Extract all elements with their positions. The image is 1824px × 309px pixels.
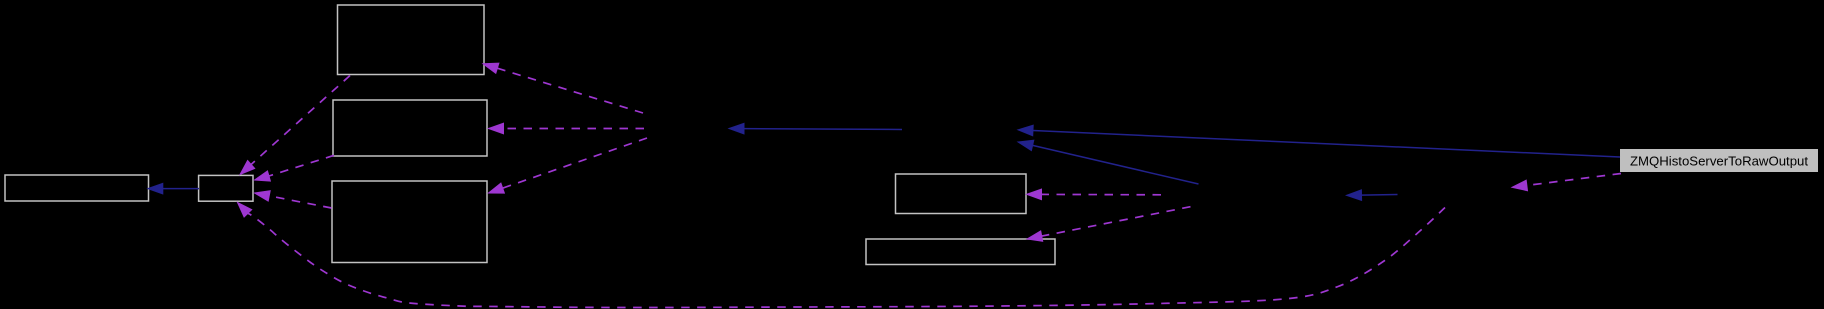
usage edge ZMQHistoServerToRawOutput to X (dashed purple): [1512, 174, 1621, 191]
node D (small box): [199, 175, 253, 201]
inheritance edge Z to W (solid blue, middle): [729, 123, 902, 134]
node ZMQHistoServerToRawOutput (current class, grey filled): [1620, 149, 1818, 172]
usage edge W to C (dashed purple): [489, 138, 648, 193]
node E (left wide box): [5, 175, 149, 201]
usage edge Y to F (dashed purple, partial: label gap): [1027, 189, 1162, 200]
node G: [866, 239, 1055, 265]
inheritance edge X to Y (short solid blue): [1347, 190, 1398, 201]
inheritance edge D to E (solid blue): [148, 183, 199, 194]
node B: [333, 100, 487, 156]
inheritance edge ZMQHistoServerToRawOutput to Z (long solid blue): [1018, 125, 1620, 157]
node C: [332, 181, 487, 263]
svg-text:ZMQHistoServerToRawOutput: ZMQHistoServerToRawOutput: [1630, 154, 1808, 169]
usage edge B to D (dashed purple): [255, 155, 335, 181]
usage edge A to D (dashed purple): [240, 76, 350, 175]
usage edge X to D (long dashed purple curve along bottom): [238, 203, 1446, 308]
usage edge C to D (dashed purple): [255, 191, 332, 208]
node A (invisible-text class box, top left): [338, 5, 485, 75]
inheritance edge Y to Z (solid blue diagonal): [1018, 140, 1199, 184]
usage edge W to A (dashed purple): [483, 63, 643, 113]
node F: [896, 174, 1027, 214]
usage edge W to B (dashed purple): [489, 123, 645, 134]
usage edge Y to G (dashed purple, partial: label gap): [1027, 207, 1191, 242]
